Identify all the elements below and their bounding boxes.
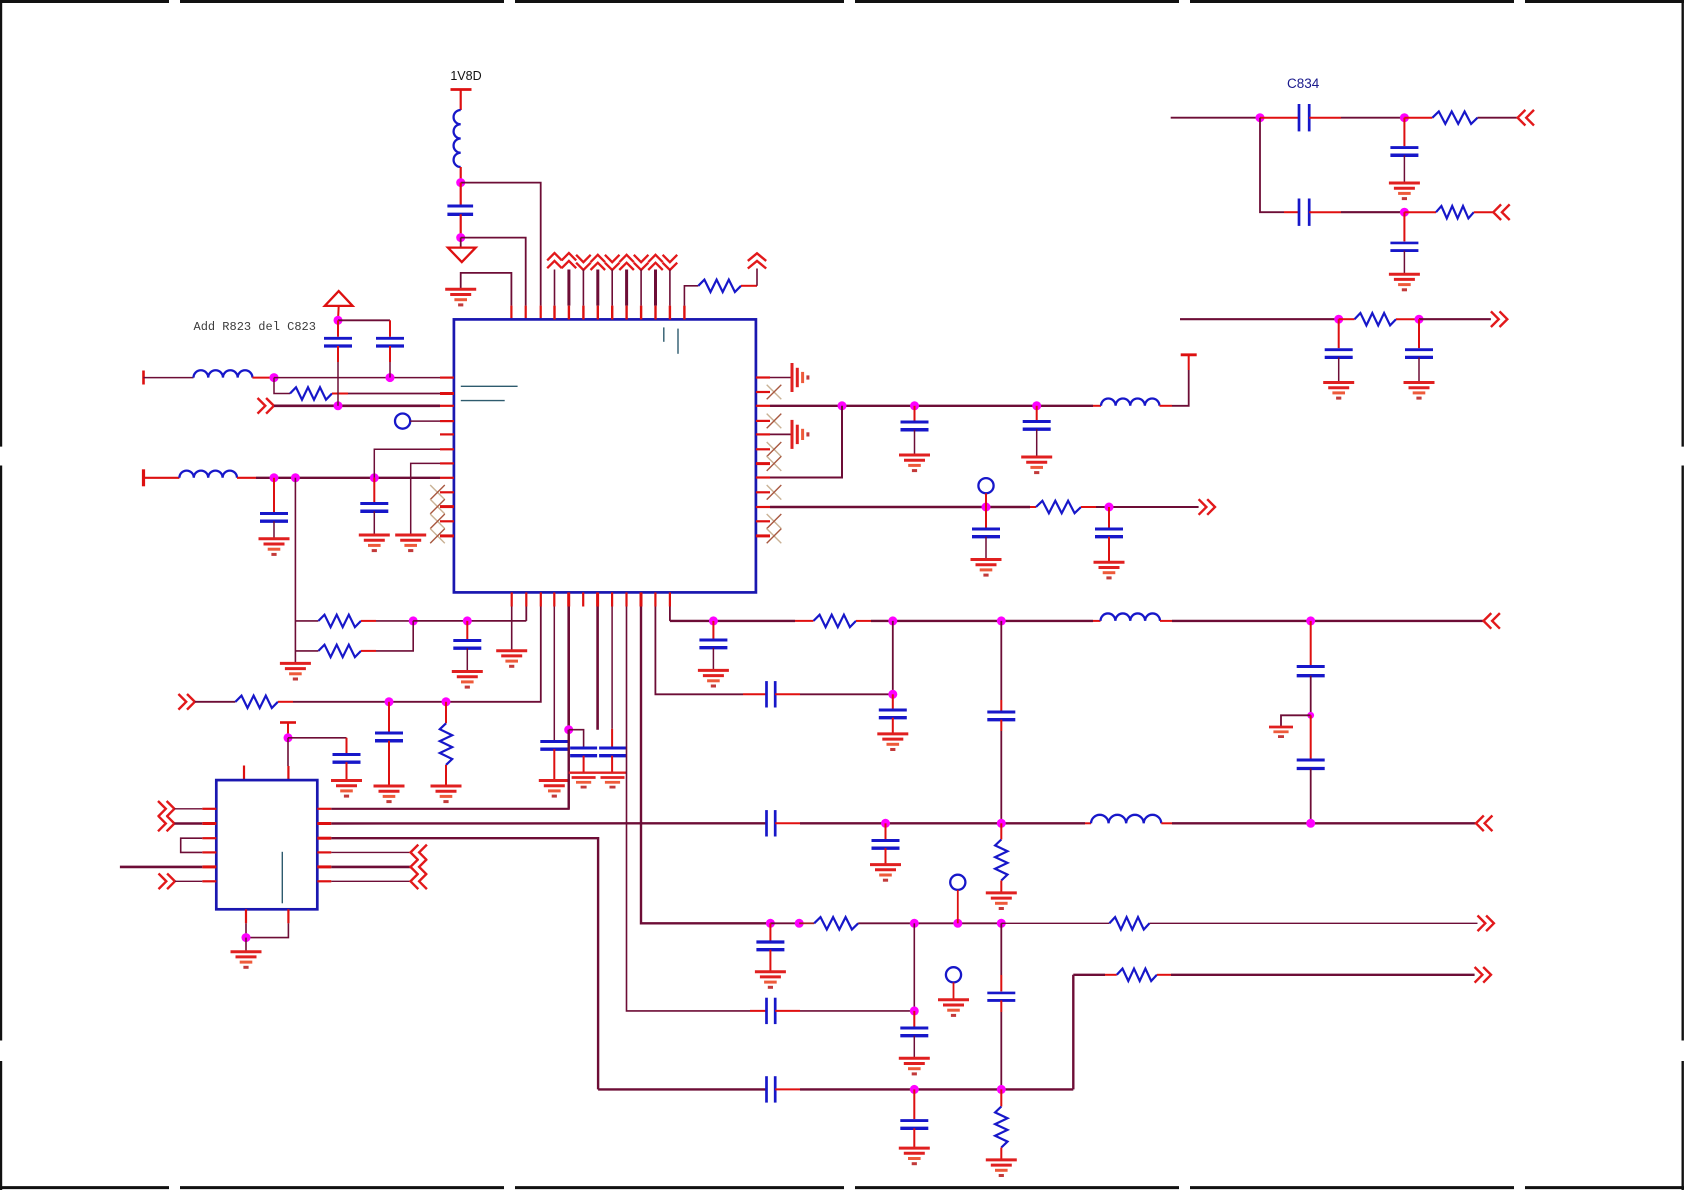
wire: [1161, 822, 1476, 824]
inductor L-1V8D (vertical): [454, 110, 461, 167]
IC U801 left pin stub y=824: [202, 822, 216, 825]
IC left pin stub y=536: [440, 534, 454, 537]
resistor R-row2: [290, 387, 332, 399]
wire: [775, 1010, 914, 1012]
wire IC pin B12 to row621: [669, 607, 671, 621]
power terminal 1V8D T-bar: [451, 90, 472, 111]
wire IC pin B7 dead end: [596, 607, 599, 730]
IC U800 interior mark: [461, 400, 505, 402]
ground (small): [572, 778, 596, 788]
junction: [910, 1006, 919, 1015]
capacitor C-1310b (series): [1297, 760, 1325, 769]
wire: [373, 511, 375, 535]
wire: [1309, 211, 1404, 213]
wire: [1108, 507, 1110, 528]
wire ground elbow to IC top pin T1: [461, 273, 512, 320]
capacitor C-823 (series): [767, 810, 776, 836]
wire: [389, 346, 391, 378]
no-connect X: [767, 456, 782, 471]
capacitor C-1V8D: [447, 206, 473, 214]
junction: [1105, 503, 1114, 512]
IC U801 left pin stub y=852: [202, 851, 216, 853]
capacitor C-row4b: [360, 504, 388, 512]
ground: [899, 1148, 930, 1164]
wire: [252, 377, 274, 379]
ground: [1021, 457, 1052, 473]
ground: [496, 651, 527, 667]
wire IC pin B11 to row694: [655, 607, 743, 695]
terminal bar: [142, 371, 145, 385]
IC bottom pin stub x=655: [654, 592, 656, 606]
wire: [237, 477, 256, 479]
ground: [870, 865, 901, 881]
wire: [1001, 922, 1109, 924]
wire: [1403, 118, 1405, 146]
junction: [1256, 113, 1265, 122]
junction: [881, 819, 890, 828]
junction: [370, 473, 379, 482]
wire: [445, 765, 447, 786]
junction: [242, 933, 251, 942]
IC left pin stub y=449: [440, 448, 454, 450]
wire to IC top pin T3: [461, 183, 541, 320]
wire: [892, 694, 894, 708]
wire: [1338, 357, 1340, 382]
wire: [1036, 406, 1038, 420]
IC bottom pin stub x=512: [511, 592, 513, 606]
ground: [280, 663, 311, 679]
wire corner up to row975: [1072, 975, 1074, 1090]
wire: [295, 650, 318, 652]
IC left pin stub y=463: [440, 462, 454, 464]
IC bottom pin stub x=670: [669, 592, 671, 606]
wire U801-R5: [331, 866, 410, 869]
resistor R-621: [814, 615, 857, 627]
wire: [1000, 1000, 1002, 1089]
circle connector to ground: [946, 967, 961, 1000]
inductor L-row1R: [1101, 398, 1159, 405]
ground (small): [1269, 727, 1293, 737]
wire pin stub: [567, 270, 570, 320]
wire IC bottom pin B2 drop: [525, 607, 527, 621]
off-page connector (right): [158, 816, 174, 832]
ground: [1404, 383, 1435, 399]
IC left pin stub y=421: [440, 420, 454, 422]
ground: [1389, 183, 1420, 199]
IC U800 interior mark: [663, 327, 665, 341]
wire: [1339, 318, 1355, 320]
wire: [337, 320, 339, 337]
svg-text:C834: C834: [1287, 76, 1320, 91]
inductor L-621: [1101, 613, 1161, 620]
wire: [278, 701, 293, 703]
wire: [388, 741, 390, 786]
wire: [914, 430, 916, 455]
no-connect X: [767, 442, 782, 457]
wire pin stub: [611, 270, 613, 320]
capacitor C-319b: [1405, 350, 1433, 358]
rotated ground at IC right pin 1: [770, 363, 808, 392]
wire: [195, 701, 236, 703]
capacitor C-1310a (series): [1297, 667, 1325, 676]
ground: [431, 786, 462, 802]
junction: [1400, 113, 1409, 122]
resistor R-823v (vertical): [995, 840, 1007, 881]
resistor R-834a: [1432, 112, 1477, 124]
IC bottom pin stub x=569: [567, 592, 570, 606]
wire: [144, 377, 194, 379]
off-page connector above IC pin x=554: [547, 253, 562, 268]
off-page connector (right): [1475, 967, 1491, 983]
capacitor C-1089b: [900, 1121, 928, 1129]
junction: [442, 697, 451, 706]
ground bus bar: [569, 772, 627, 774]
junction: [910, 1085, 919, 1094]
capacitor C-row4a: [260, 514, 288, 522]
wire: [914, 406, 916, 421]
IC left pin stub y=406: [440, 405, 454, 407]
ground: [231, 952, 262, 968]
wire: [1396, 318, 1419, 320]
IC bottom pin stub x=526: [525, 592, 527, 606]
IC left pin stub y=478: [440, 477, 454, 479]
junction: [1306, 616, 1315, 625]
wire: [1260, 117, 1299, 119]
ground: [445, 289, 476, 305]
ground: [1389, 274, 1420, 290]
junction: [766, 919, 775, 928]
power terminal T-bar: [1181, 353, 1197, 356]
resistor R-834b: [1436, 206, 1474, 218]
resistor R-923: [814, 917, 858, 929]
no-connect X: [430, 529, 445, 544]
wire: [175, 880, 202, 882]
off-page connector above IC pin x=612: [605, 255, 620, 270]
capacitor C-694b: [879, 710, 907, 718]
wire: [1085, 822, 1091, 824]
ground: [331, 781, 362, 797]
IC left pin stub y=394: [440, 392, 454, 395]
ground: [755, 972, 786, 988]
no-connect X: [767, 385, 782, 400]
capacitor C-834c: [1390, 148, 1418, 156]
junction: [997, 616, 1006, 625]
wire: [741, 269, 757, 286]
wire: [1478, 117, 1518, 119]
wire IC pin B5 down: [567, 607, 570, 730]
off-page connector above IC pin x=656: [648, 255, 663, 270]
wire pin stub: [654, 270, 657, 320]
off-page connector (right): [1478, 916, 1494, 932]
wire pin stub: [669, 270, 671, 320]
wire: [1160, 620, 1484, 622]
wire: [1338, 319, 1340, 348]
ground: [986, 1160, 1017, 1176]
junction: [888, 616, 897, 625]
wire IC pin B8 down: [611, 607, 613, 747]
ground: [452, 672, 483, 688]
wire: [795, 620, 814, 622]
IC left pin stub y=507: [440, 505, 454, 508]
junction: [888, 690, 897, 699]
wire: [288, 737, 347, 739]
wire: [1310, 715, 1312, 758]
circle connector: [950, 875, 965, 924]
IC right pin stub y=492: [756, 491, 770, 493]
capacitor C-B8: [599, 748, 626, 756]
svg-text:1V8D: 1V8D: [450, 69, 481, 83]
wire: [1403, 251, 1405, 275]
IC U801 right pin stub y=809: [317, 808, 331, 810]
off-page connector above IC pin x=670: [663, 255, 678, 270]
wire: [1000, 1148, 1002, 1160]
wire: [770, 922, 799, 924]
wire corner to row2: [274, 378, 290, 394]
no-connect X: [430, 499, 445, 514]
capacitor C-T: [333, 755, 361, 763]
IC left pin stub y=492: [440, 491, 454, 493]
wire: [913, 1036, 915, 1059]
wire: [885, 823, 887, 839]
capacitor C-1001a (series): [987, 712, 1015, 720]
junction: [1032, 401, 1041, 410]
IC right pin stub y=464: [756, 462, 770, 465]
junction: [838, 401, 847, 410]
capacitor C-b: [376, 338, 404, 346]
wire ground branch: [1281, 715, 1311, 727]
capacitor C-694 (series): [767, 681, 776, 707]
circle connector: [395, 414, 440, 429]
junction: [709, 616, 718, 625]
wire IC pin B10 down: [641, 607, 770, 924]
wire: [337, 346, 339, 406]
IC right pin stub y=521: [756, 520, 770, 522]
wire long input: [120, 866, 202, 869]
junction: [291, 473, 300, 482]
IC U801 left pin stub y=809: [202, 808, 216, 810]
wire: [1073, 974, 1117, 976]
junction: [564, 725, 573, 734]
capacitor C-a: [324, 338, 352, 346]
wire: [568, 730, 570, 809]
junction: [910, 401, 919, 410]
IC U801 right pin stub y=881: [317, 880, 331, 882]
wire pin stub: [582, 270, 584, 320]
wire: [361, 620, 413, 622]
IC bottom pin stub x=626: [625, 592, 627, 606]
wire x1001 down: [1000, 621, 1002, 711]
resistor R-701: [235, 696, 278, 708]
no-connect X: [767, 529, 782, 544]
off-page connector (up): [748, 253, 766, 268]
IC bottom pin stub x=541: [540, 592, 542, 606]
no-connect X: [430, 514, 445, 529]
wire: [273, 521, 275, 539]
capacitor C-B4: [540, 742, 568, 750]
wire branch to C-B5: [569, 730, 584, 747]
wire row621 left: [413, 620, 526, 622]
IC right pin stub y=406: [756, 405, 770, 407]
svg-text:Add R823 del C823: Add R823 del C823: [194, 320, 316, 334]
junction: [409, 616, 418, 625]
wire: [611, 756, 613, 773]
off-page connector above IC pin x=598: [591, 255, 606, 270]
wire row319: [1180, 318, 1339, 320]
wire: [466, 648, 468, 671]
IC right pin stub y=434: [756, 433, 770, 435]
resistor R-620a: [318, 615, 361, 627]
capacitor C-823b: [872, 841, 900, 849]
wire U-loop pins L3-L4: [181, 838, 203, 852]
capacitor C-R2a: [972, 529, 1000, 537]
wire IC pin R8 elbow up: [770, 406, 842, 478]
power symbol down-triangle: [448, 238, 476, 263]
wire: [775, 822, 1085, 824]
wire IC pin L6 elbow: [374, 449, 440, 478]
wire: [1284, 211, 1299, 213]
wire: [799, 922, 814, 924]
junction: [1400, 208, 1409, 217]
off-page connector above IC pin x=641: [634, 255, 649, 270]
no-connect X: [430, 485, 445, 500]
junction: [270, 373, 279, 382]
off-page connector (left): [411, 859, 427, 875]
ground: [899, 455, 930, 471]
net label 1V8D: [450, 69, 481, 83]
ground: [259, 539, 290, 555]
resistor R-975: [1117, 969, 1157, 981]
wire: [245, 938, 247, 952]
wire: [913, 1089, 915, 1119]
resistor R-923b: [1109, 917, 1149, 929]
no-connect X: [767, 514, 782, 529]
off-page connector above IC pin x=627: [619, 255, 634, 270]
IC bottom pin stub x=612: [611, 592, 613, 606]
wire row823 left: [331, 822, 766, 825]
ground: [374, 786, 405, 802]
inductor L-823: [1091, 815, 1161, 823]
junction: [385, 697, 394, 706]
wire: [583, 756, 585, 773]
junction: [910, 919, 919, 928]
IC U801 right pin stub y=867: [317, 865, 331, 868]
junction: [1306, 819, 1315, 828]
wire: [273, 478, 275, 512]
junction: [1307, 712, 1314, 719]
no-connect X: [767, 414, 782, 429]
off-page connector (right): [258, 398, 274, 414]
wire U801-R6: [331, 880, 410, 882]
wire: [388, 702, 390, 732]
wire IC bottom pin B1 to ground: [511, 607, 513, 651]
capacitor C-834d: [1390, 243, 1418, 251]
junction: [386, 373, 395, 382]
wire x914 down: [913, 923, 915, 1011]
wire row4 to IC: [256, 477, 440, 479]
wire: [1000, 881, 1002, 893]
capacitor C-834b (series): [1299, 199, 1309, 226]
wire: [1309, 117, 1404, 119]
IC bottom pin stub x=598: [596, 592, 599, 606]
IC right pin stub y=449: [756, 448, 770, 450]
wire IC pin B9 down: [627, 607, 751, 1011]
off-page connector (left): [1518, 110, 1534, 126]
circle connector: [978, 478, 993, 507]
wire: [445, 702, 447, 724]
wire: [1150, 922, 1478, 924]
wire: [775, 1088, 1073, 1090]
off-page connector (right): [1491, 311, 1507, 327]
off-page connector (right): [1199, 499, 1215, 515]
off-page connector (left): [1476, 816, 1492, 832]
wire: [743, 693, 767, 695]
wire: [338, 319, 390, 321]
off-page connector (right): [159, 874, 175, 890]
junction: [1334, 315, 1343, 324]
wire row1R: [770, 405, 1093, 407]
IC U801 bottom pin stub: [287, 909, 289, 923]
off-page connector (right): [178, 694, 194, 710]
ground: [877, 734, 908, 750]
junction: [1415, 315, 1424, 324]
small IC top pin stub (NC): [243, 766, 245, 781]
IC U801 right pin stub y=824: [317, 822, 331, 825]
IC U801 body: [216, 780, 317, 909]
wire to small IC top pin: [287, 738, 289, 780]
resistor R-row2R: [1036, 501, 1081, 513]
wire: [985, 537, 987, 560]
junction: [997, 1085, 1006, 1094]
IC right pin stub y=392: [756, 391, 770, 393]
terminal bar: [142, 469, 145, 486]
off-page connector (left): [411, 845, 427, 861]
wire: [885, 848, 887, 864]
IC right pin stub y=507: [756, 506, 770, 508]
wire row3 to IC: [274, 404, 440, 407]
wire: [346, 738, 348, 753]
off-page connector (right): [158, 801, 174, 817]
IC U801 left pin stub y=867: [202, 865, 216, 868]
wire: [913, 1011, 915, 1027]
junction: [997, 919, 1006, 928]
IC left pin stub y=378: [440, 377, 454, 379]
wire: [1000, 720, 1002, 824]
IC right pin stub y=478: [756, 476, 770, 478]
wire U801-R3 long: [331, 838, 598, 1089]
wire pin stub: [640, 270, 642, 320]
wire: [295, 620, 318, 622]
junction: [270, 473, 279, 482]
wire IC top pin T13: [684, 286, 698, 320]
wire: [1404, 117, 1432, 119]
capacitor C-1001b (series): [987, 993, 1015, 1001]
junction: [334, 316, 343, 325]
junction: [795, 919, 804, 928]
wire: [346, 762, 348, 780]
inductor L-row4: [179, 471, 237, 478]
wire pin stub: [596, 270, 599, 320]
capacitor C-1011 (series): [767, 998, 776, 1024]
wire: [1000, 823, 1002, 839]
junction: [463, 616, 472, 625]
wire IC pin B4 down: [553, 607, 555, 741]
wire: [712, 648, 714, 671]
ground: [359, 535, 390, 551]
ground: [395, 535, 426, 551]
wire: [858, 922, 1001, 924]
wire: [856, 620, 1093, 622]
capacitor C-R2b: [1095, 529, 1123, 537]
